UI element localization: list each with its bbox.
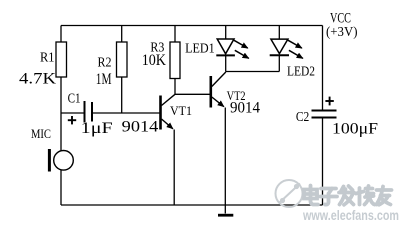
电: [311, 186, 319, 205]
wire R2 bottom lead: [121, 77, 123, 113]
watermark logo: [276, 180, 303, 207]
transistor VT1: [122, 94, 192, 135]
svg-text:R2: R2: [98, 55, 112, 70]
watermark title 电子发烧友 (hand-drawn strokes): [304, 186, 392, 205]
microphone MIC: [31, 126, 73, 172]
watermark title white core: [304, 186, 392, 205]
transistor VT2: [211, 72, 260, 117]
wire LED1 anode lead: [225, 26, 227, 40]
wire right rail lower: [322, 118, 324, 206]
友: [377, 188, 392, 192]
svg-text:(+3V): (+3V): [326, 25, 358, 40]
wire R3 bottom lead: [174, 79, 176, 95]
wire bottom rail: [61, 204, 323, 206]
resistor R1: [19, 42, 67, 88]
capacitor C1: [68, 91, 114, 138]
wire R2 top lead: [121, 26, 123, 43]
svg-text:4.7K: 4.7K: [19, 71, 57, 88]
wire VT1 collector to VT2 base: [175, 93, 210, 95]
wire R1 top lead: [60, 26, 62, 43]
子: [321, 187, 336, 191]
resistor R2: [96, 42, 127, 88]
capacitor C2: [296, 97, 379, 138]
wire LED1 cathode lead: [225, 55, 227, 71]
wire C1 to VT1 base: [92, 112, 160, 114]
wire right rail upper: [322, 26, 324, 111]
烧: [358, 188, 362, 205]
svg-text:100μF: 100μF: [332, 121, 378, 138]
wire LED2 anode lead: [278, 26, 280, 40]
svg-text:1μF: 1μF: [81, 120, 113, 137]
wire MIC bottom lead: [60, 170, 62, 205]
svg-text:9014: 9014: [230, 100, 260, 117]
ground: [218, 214, 233, 217]
wire R1 bottom lead to MIC: [60, 77, 62, 151]
svg-text:VT1: VT1: [170, 103, 192, 118]
wire LED2 cathode lead: [278, 55, 280, 71]
node VCC label: [326, 11, 358, 41]
LED1: [185, 39, 249, 58]
resistor R3: [142, 40, 180, 79]
wire LED cathode joining: [226, 71, 280, 73]
svg-text:9014: 9014: [122, 119, 159, 136]
wire VT1 emitter down: [173, 130, 175, 206]
wire VT2 emitter down to ground: [224, 108, 226, 214]
svg-text:R1: R1: [40, 50, 55, 65]
wire R3 top lead: [174, 26, 176, 43]
wire top rail: [61, 25, 323, 27]
svg-text:LED1: LED1: [185, 41, 215, 56]
svg-text:LED2: LED2: [287, 64, 315, 79]
svg-text:1M: 1M: [96, 71, 112, 88]
发: [339, 191, 354, 195]
svg-text:10K: 10K: [142, 52, 167, 69]
svg-text:MIC: MIC: [31, 126, 51, 141]
svg-text:C2: C2: [296, 110, 309, 125]
wire C1 left lead: [61, 112, 85, 114]
LED2: [270, 39, 315, 78]
svg-text:C1: C1: [68, 91, 81, 106]
svg-text:www.elecfans.com: www.elecfans.com: [302, 208, 399, 223]
